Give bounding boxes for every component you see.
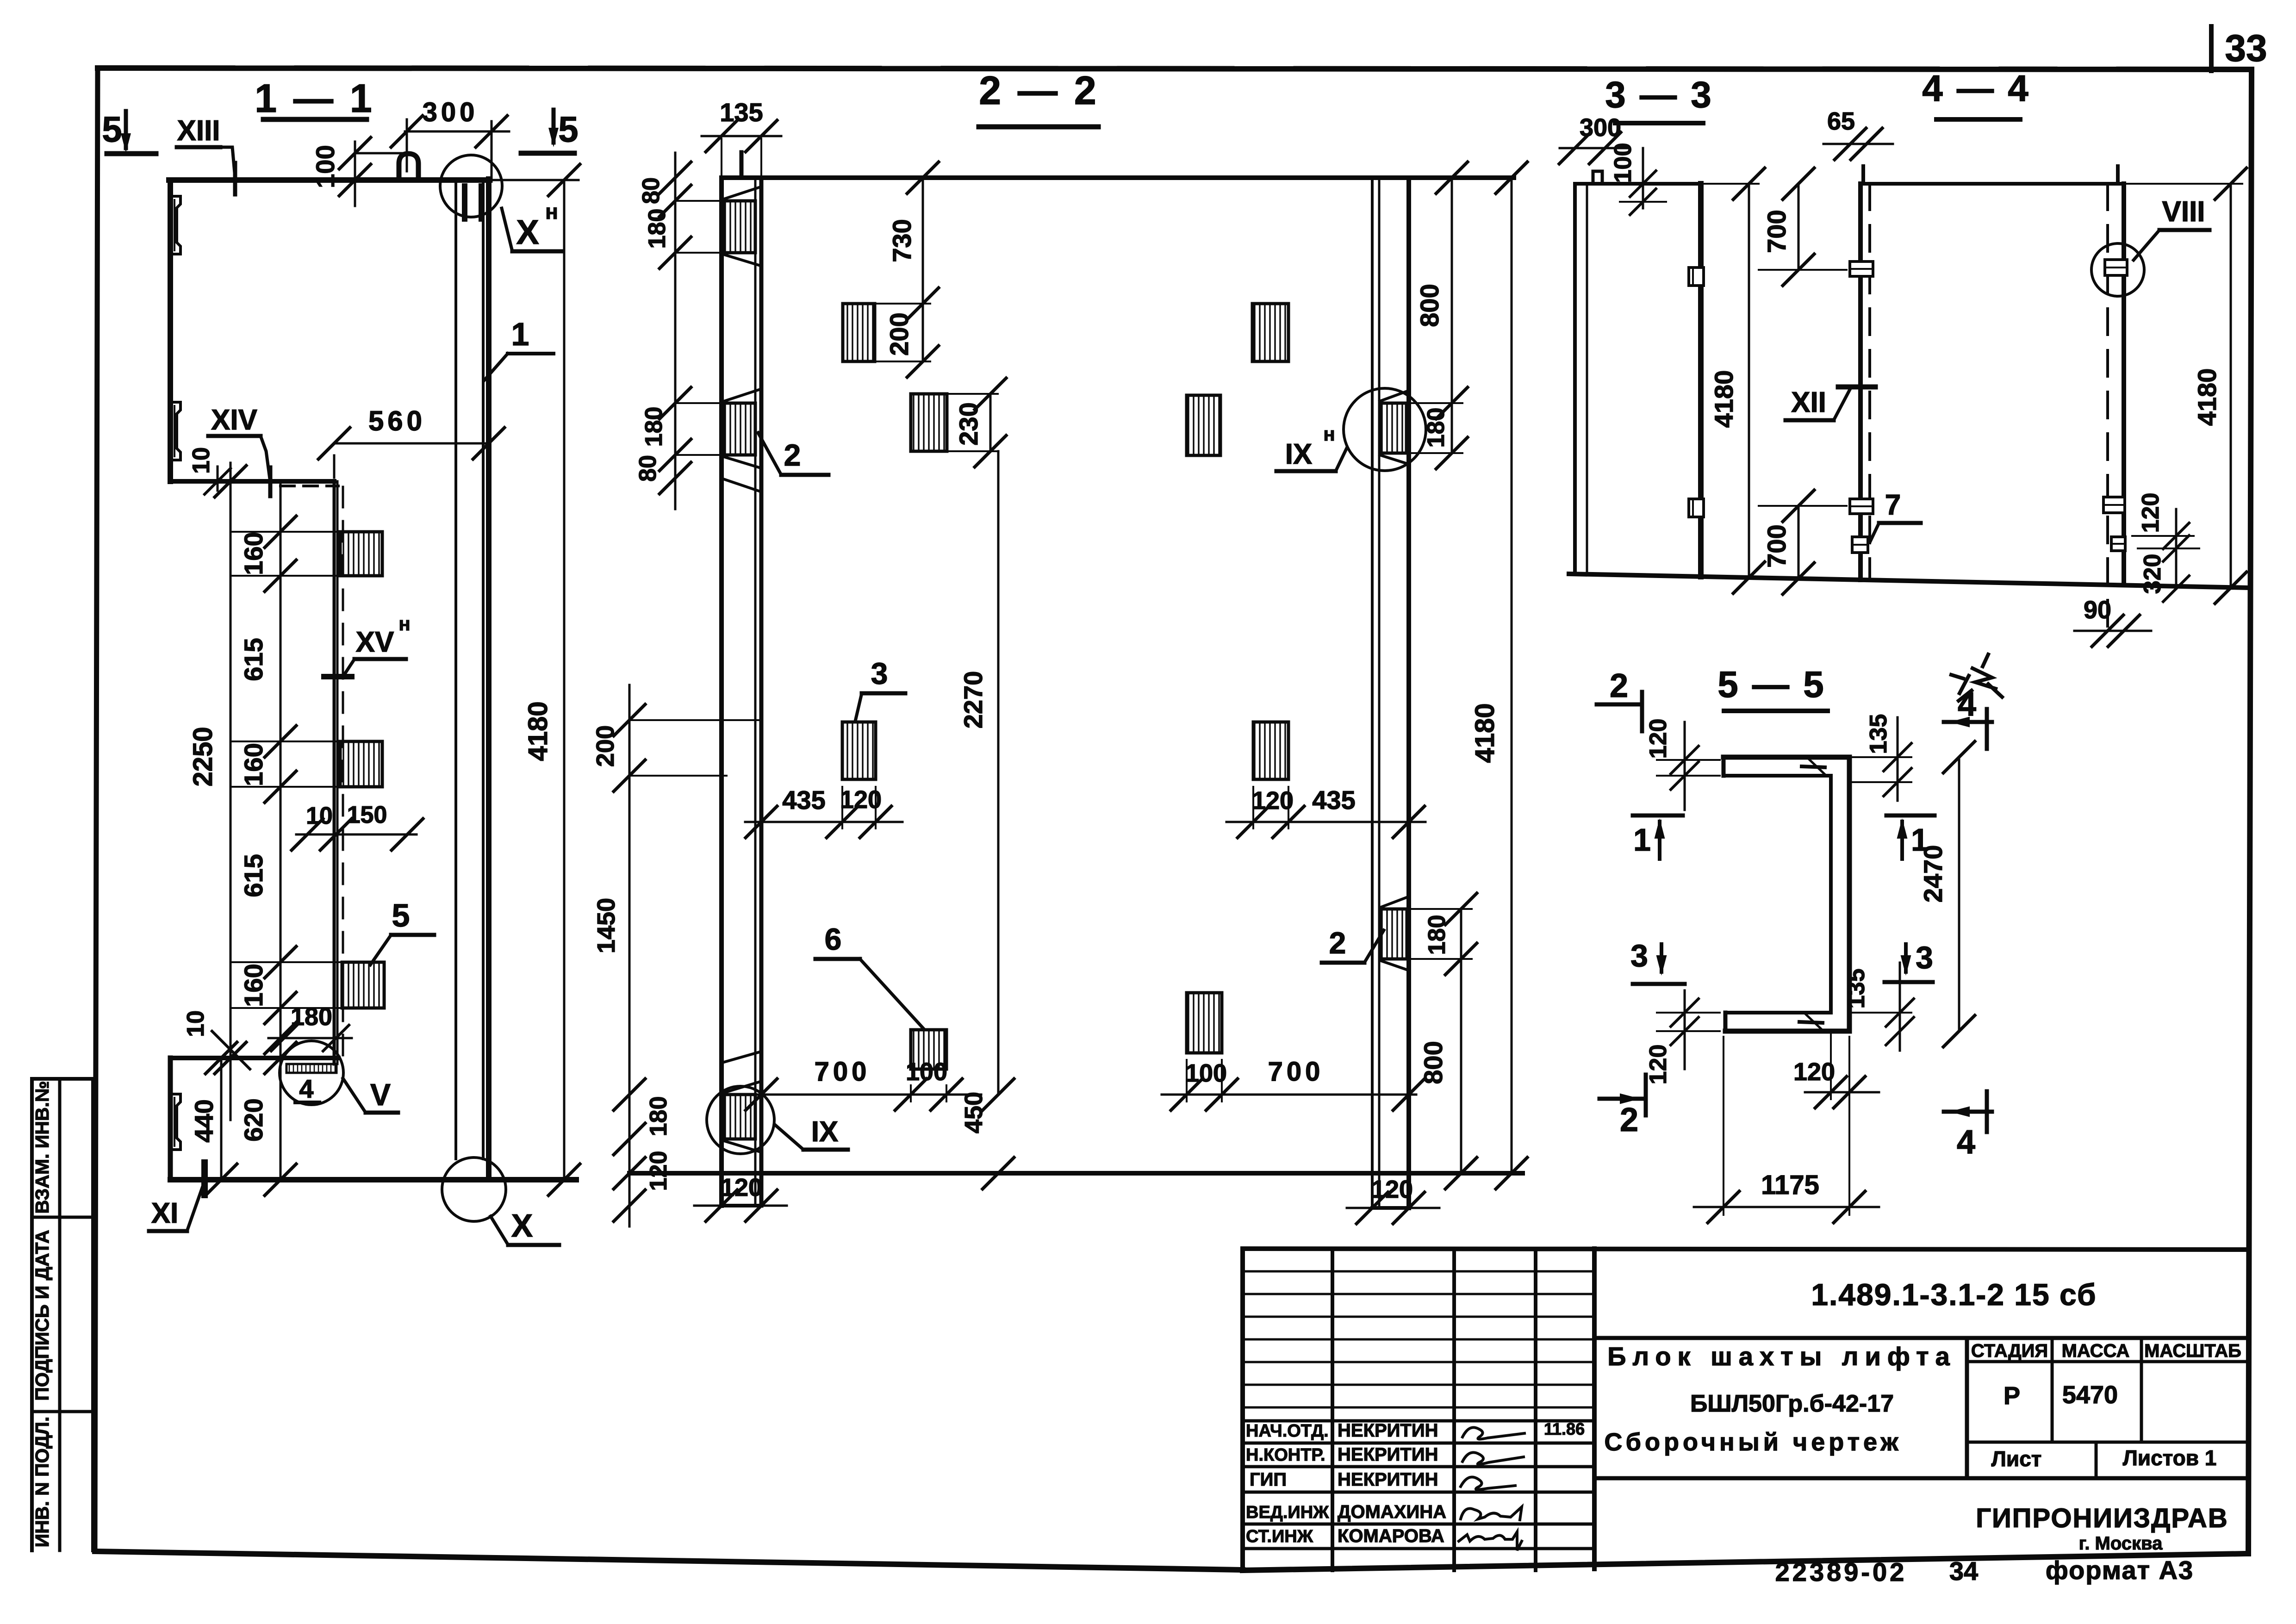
staff rows [1243,1419,1594,1423]
wall left edge upper 1-1 [168,180,173,481]
svg-text:Лист: Лист [1991,1447,2042,1471]
svg-text:160: 160 [239,743,268,786]
edge tab lower (3-3) [1689,499,1704,517]
svg-text:230: 230 [954,402,983,445]
svg-text:135: 135 [720,98,763,127]
dim chain 2250 [230,463,232,1120]
svg-text:100: 100 [1185,1059,1227,1087]
svg-text:СТАДИЯ: СТАДИЯ [1971,1341,2048,1361]
svg-text:200: 200 [884,312,914,355]
svg-text:160: 160 [239,532,268,575]
dim 4180 (3-3) [1748,184,1750,578]
dim 4180 (1-1) [491,179,579,181]
svg-text:2 — 2: 2 — 2 [979,68,1099,113]
svg-text:320: 320 [2139,554,2166,594]
detail circle X (bottom) [442,1157,506,1221]
svg-text:Н.КОНТР.: Н.КОНТР. [1246,1445,1325,1465]
svg-text:80: 80 [638,177,665,204]
anchor F4b [1187,993,1222,1053]
ink blot scribble [1951,654,2002,701]
dim 4180 (4-4) [2230,184,2232,588]
inner wall lines 1-1 [333,481,336,1064]
svg-text:4: 4 [1957,1124,1975,1161]
svg-text:440: 440 [189,1099,218,1142]
panel bottom edge 2-2 [629,1171,1523,1176]
svg-text:730: 730 [887,219,916,262]
svg-text:4: 4 [299,1074,313,1103]
svg-text:120: 120 [1371,1176,1413,1203]
dim 180 lower right [1460,909,1462,1173]
svg-text:435: 435 [1312,785,1355,815]
svg-text:Листов 1: Листов 1 [2123,1446,2217,1470]
svg-text:СТ.ИНЖ: СТ.ИНЖ [1246,1527,1313,1546]
wall anchor WA3 in circle IX [724,1095,755,1139]
svg-text:11.86: 11.86 [1544,1419,1585,1438]
anchor plate B1 [340,532,382,576]
panel top edge 2-2 [722,175,1514,180]
svg-text:80: 80 [635,455,661,482]
svg-text:135: 135 [1865,714,1892,754]
svg-text:100: 100 [311,145,340,188]
dim 730 / 200 [922,178,924,361]
svg-text:620: 620 [239,1098,268,1141]
anchor F1b label 3 [842,722,876,779]
channel top flange [1724,755,1849,760]
svg-text:120: 120 [1645,1045,1672,1085]
top tab left wall 2-2 [740,152,744,178]
svg-text:2270: 2270 [958,671,988,729]
clamp left bottom small (label 7) [1852,537,1868,553]
svg-text:Сборочный чертеж: Сборочный чертеж [1604,1428,1902,1456]
weld strip detail 4 [286,1064,336,1073]
detail circle V [280,1041,343,1105]
edge tab upper (3-3) [1689,268,1704,286]
svg-text:V: V [370,1077,391,1112]
thin rows upper [1243,1270,1594,1273]
svg-text:XIV: XIV [211,404,257,436]
svg-text:4 — 4: 4 — 4 [1922,68,2030,109]
panel 3-3 outline [1575,182,1701,186]
top tab 3-3 [1593,171,1602,184]
title block outer [1243,1249,2247,1250]
svg-text:5: 5 [558,109,578,149]
svg-text:300: 300 [423,97,479,127]
dim 4180 (2-2) [1511,178,1513,1173]
lifting loop [399,154,418,180]
clamp left upper (4-4) [1850,261,1873,276]
title block columns left part [1331,1249,1334,1570]
svg-text:1: 1 [1911,822,1929,858]
svg-text:ГИПРОНИИЗДРАВ: ГИПРОНИИЗДРАВ [1976,1503,2228,1533]
guide rail lines [454,182,457,1159]
step ledge 1-1 [170,479,334,484]
svg-text:XII: XII [1791,386,1826,418]
anchor F2 [911,394,947,451]
anchor plate B2 [340,741,382,787]
svg-text:1 — 1: 1 — 1 [255,76,374,121]
clamp right lower (4-4) [2103,497,2125,513]
sheet frame [98,68,2252,69]
svg-text:XIII: XIII [177,115,220,147]
svg-text:5 — 5: 5 — 5 [1717,664,1825,705]
svg-text:1175: 1175 [1761,1170,1819,1200]
svg-text:180: 180 [645,1096,672,1137]
dim 700 upper (4-4) [1798,184,1800,270]
svg-text:120: 120 [1645,719,1672,759]
svg-text:н: н [398,613,410,635]
svg-text:800: 800 [1419,1041,1448,1084]
right wall anchor WB1 in circle IX-H [1380,403,1406,453]
svg-text:XV: XV [356,626,394,658]
dim 300 top [405,131,509,133]
page number 33 [2209,26,2214,71]
svg-text:3: 3 [871,656,888,691]
lower step 1-1 [170,1056,338,1060]
svg-text:4: 4 [1958,686,1976,723]
svg-text:200: 200 [591,725,619,767]
svg-text:VIII: VIII [2162,196,2205,228]
svg-text:Р: Р [2004,1382,2020,1410]
anchor F3b [1253,722,1288,779]
svg-text:435: 435 [782,785,825,815]
svg-text:700: 700 [815,1057,871,1087]
svg-text:120: 120 [1793,1058,1835,1086]
svg-text:БШЛ50Гр.б-42-17: БШЛ50Гр.б-42-17 [1690,1390,1894,1417]
dim 560 [334,442,489,445]
svg-text:700: 700 [1762,210,1791,253]
bottom edge 3-3/4-4 [1569,574,2249,588]
svg-text:НЕКРИТИН: НЕКРИТИН [1338,1420,1438,1441]
svg-text:160: 160 [239,964,268,1007]
svg-text:615: 615 [239,638,268,681]
svg-text:10: 10 [188,447,215,474]
svg-text:н: н [545,199,558,224]
svg-text:33: 33 [2225,27,2267,69]
svg-text:НЕКРИТИН: НЕКРИТИН [1338,1469,1438,1490]
svg-text:КОМАРОВА: КОМАРОВА [1338,1526,1444,1546]
left dim chain 80/180 [674,153,677,509]
svg-text:135: 135 [1843,969,1870,1009]
clamp right bottom small (4-4) [2111,537,2125,551]
svg-text:6: 6 [825,922,842,956]
svg-text:МАССА: МАССА [2062,1341,2130,1361]
svg-text:3: 3 [1630,938,1648,973]
svg-text:3: 3 [1916,940,1933,975]
svg-text:2: 2 [1329,926,1346,960]
svg-text:120: 120 [1252,787,1294,815]
svg-text:формат А3: формат А3 [2046,1556,2194,1585]
signatures [1462,1427,1524,1439]
svg-text:100: 100 [1610,143,1636,183]
svg-text:2: 2 [1620,1101,1638,1139]
svg-text:180: 180 [1424,915,1450,955]
svg-text:700: 700 [1762,524,1791,567]
svg-text:450: 450 [960,1092,988,1133]
svg-text:НАЧ.ОТД.: НАЧ.ОТД. [1246,1421,1329,1441]
svg-text:5: 5 [102,109,122,149]
wall anchor WA1 [724,201,755,253]
svg-text:ПОДПИСЬ И ДАТА: ПОДПИСЬ И ДАТА [31,1230,53,1400]
bottom edge 1-1 [170,1177,576,1182]
svg-text:90: 90 [2084,596,2111,624]
svg-text:560: 560 [368,405,426,436]
svg-text:1.489.1-3.1-2 15 сб: 1.489.1-3.1-2 15 сб [1811,1277,2097,1312]
svg-text:180: 180 [641,407,667,447]
anchor F4 right mid [1187,395,1220,455]
svg-text:3 — 3: 3 — 3 [1605,74,1713,115]
svg-text:XI: XI [151,1197,179,1229]
svg-text:7: 7 [1885,489,1901,521]
svg-text:4180: 4180 [1470,703,1500,763]
anchor F1 [843,304,875,361]
wall top edge 1-1 [169,177,490,183]
left dim chain 200/1450/180/120 [628,685,631,1226]
svg-text:1: 1 [1633,822,1651,858]
right wall lines 2-2 [1371,178,1374,1208]
svg-text:2: 2 [784,438,801,472]
svg-text:120: 120 [721,1174,762,1201]
svg-text:180: 180 [1423,408,1450,448]
svg-text:ГИП: ГИП [1250,1469,1287,1490]
svg-text:5470: 5470 [2062,1381,2118,1409]
svg-text:ВЕД.ИНЖ: ВЕД.ИНЖ [1246,1503,1329,1522]
svg-text:НЕКРИТИН: НЕКРИТИН [1338,1444,1438,1465]
svg-text:4180: 4180 [523,701,553,761]
svg-text:5: 5 [392,897,410,933]
svg-text:X: X [511,1207,533,1244]
svg-text:615: 615 [239,854,268,897]
svg-text:700: 700 [1268,1057,1324,1087]
svg-text:ВЗАМ. ИНВ.№: ВЗАМ. ИНВ.№ [31,1081,53,1213]
left wall lines 2-2 [719,178,724,1206]
shear key notch lower-left [170,1094,180,1150]
channel web [1829,776,1833,1013]
svg-text:н: н [1323,423,1335,445]
clamp right upper in circle VIII [2105,260,2127,275]
svg-text:10: 10 [306,803,333,829]
svg-text:X: X [516,213,539,251]
detail circle X-sup-H (top) [440,155,502,217]
right part structure [1594,1336,2247,1340]
clamp left lower (4-4) [1850,499,1873,514]
panel 4-4 outline [1858,184,1863,580]
anchor plate B3 [342,962,384,1008]
svg-text:22389-02: 22389-02 [1775,1557,1907,1587]
svg-text:180: 180 [644,209,671,249]
top stubs 4-4 [1861,166,1865,184]
svg-text:ИНВ. N ПОДЛ.: ИНВ. N ПОДЛ. [31,1417,53,1548]
wall right edge 1-1 [486,179,492,1180]
shear key notch upper-left 1 [170,196,180,254]
svg-text:IX: IX [811,1116,839,1148]
svg-text:150: 150 [347,802,387,828]
dim 700 lower (4-4) [1798,506,1800,579]
svg-text:120: 120 [2137,493,2164,533]
svg-text:800: 800 [1415,284,1444,327]
svg-text:2: 2 [1610,667,1628,704]
svg-text:100: 100 [906,1058,947,1086]
svg-text:1: 1 [511,316,529,352]
svg-text:ДОМАХИНА: ДОМАХИНА [1338,1502,1446,1522]
right wall anchor WB2 (label 2) [1381,909,1407,959]
wall anchor WA2 (label 2) [724,403,755,455]
shear key notch upper-left 2 [170,402,180,460]
dim chain x=606 (160/615/160/615/160/180) [280,481,282,1058]
dim 100 (loop) [354,142,356,206]
svg-text:IX: IX [1285,438,1313,470]
svg-text:4180: 4180 [1709,370,1738,428]
svg-text:МАСШТАБ: МАСШТАБ [2144,1341,2241,1361]
dim 800 upper right [1451,178,1453,453]
anchor F6 label 6 [911,1030,946,1069]
svg-text:34: 34 [1949,1556,1978,1586]
svg-text:г. Москва: г. Москва [2079,1533,2163,1554]
svg-text:Блок шахты лифта: Блок шахты лифта [1607,1342,1956,1371]
svg-text:2250: 2250 [188,727,218,786]
svg-text:65: 65 [1827,107,1855,135]
anchor F3 right top [1252,304,1288,361]
left margin stamp strip [32,1077,93,1081]
dim 2270 [997,451,1000,1095]
svg-text:4180: 4180 [2192,368,2221,426]
svg-text:1450: 1450 [592,898,620,953]
dim 230 (left) [989,394,992,451]
channel bottom flange [1725,1011,1831,1014]
svg-text:10: 10 [182,1010,209,1037]
